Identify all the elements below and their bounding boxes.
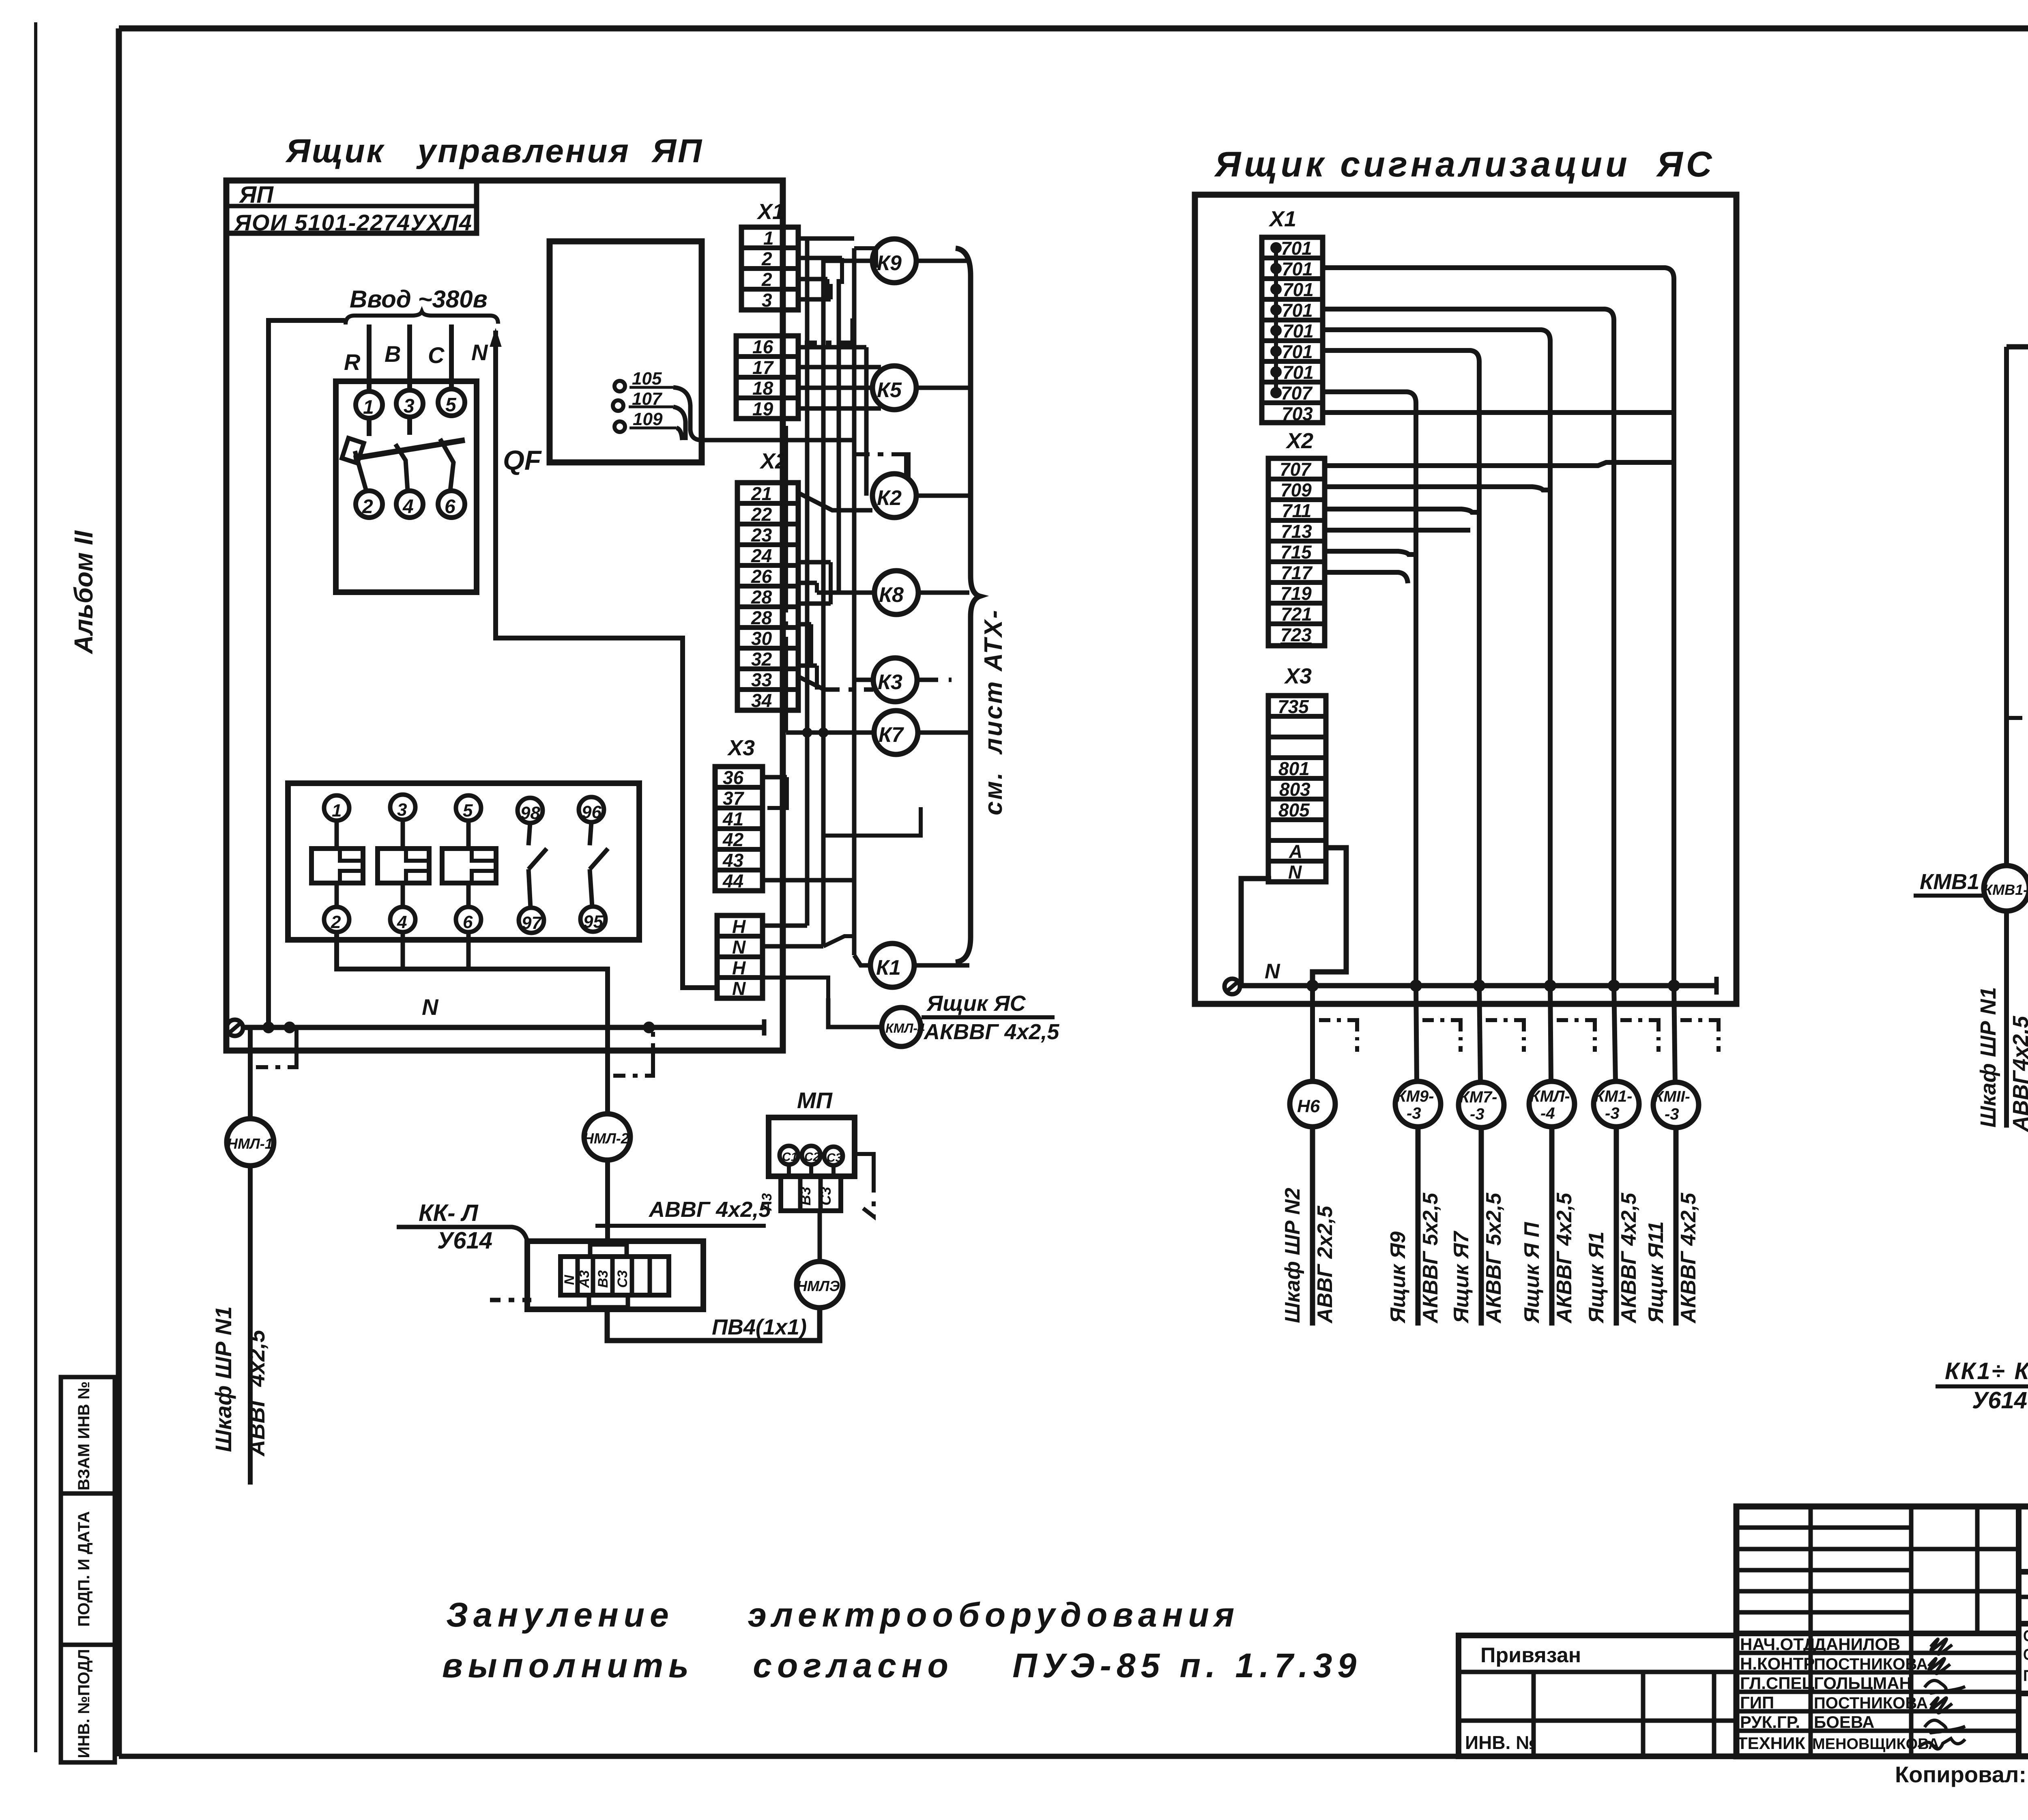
svg-text:Ящик сигнализации ЯС: Ящик сигнализации ЯС (1214, 144, 1715, 184)
svg-text:АВВГ4х2,5: АВВГ4х2,5 (2009, 1016, 2028, 1132)
svg-text:Ящик управления ЯП: Ящик управления ЯП (285, 133, 703, 170)
svg-text:АКВВГ 4х2,5: АКВВГ 4х2,5 (923, 1020, 1059, 1044)
svg-text:ГОЛЬЦМАН: ГОЛЬЦМАН (1814, 1674, 1912, 1693)
svg-text:5: 5 (463, 801, 473, 821)
svg-text:Шкаф ШР N1: Шкаф ШР N1 (1976, 987, 2000, 1128)
svg-text:КМВ1: КМВ1 (1920, 870, 1979, 894)
svg-text:3: 3 (404, 395, 415, 417)
svg-text:17: 17 (752, 357, 774, 378)
svg-text:44: 44 (722, 870, 743, 892)
svg-text:43: 43 (722, 850, 744, 871)
svg-text:А3: А3 (577, 1270, 592, 1288)
svg-text:В3: В3 (595, 1270, 611, 1288)
svg-text:Альбом II: Альбом II (69, 530, 98, 655)
svg-text:105: 105 (632, 369, 662, 389)
svg-text:22: 22 (751, 504, 772, 525)
svg-text:В3: В3 (797, 1187, 814, 1205)
svg-text:К8: К8 (879, 583, 904, 607)
svg-text:98: 98 (520, 803, 540, 823)
svg-text:К5: К5 (877, 378, 902, 402)
svg-text:РУК.ГР.: РУК.ГР. (1740, 1713, 1800, 1732)
svg-text:Привязан: Привязан (1480, 1644, 1581, 1667)
svg-text:2: 2 (362, 496, 373, 518)
svg-text:ПОСТНИКОВА: ПОСТНИКОВА (1814, 1655, 1928, 1673)
svg-text:С1: С1 (782, 1150, 797, 1164)
svg-text:С2: С2 (804, 1150, 820, 1164)
svg-text:БОЕВА: БОЕВА (1814, 1713, 1874, 1732)
svg-text:N: N (471, 340, 488, 365)
svg-text:Ящик Я1: Ящик Я1 (1585, 1231, 1608, 1324)
svg-text:X2: X2 (759, 449, 787, 473)
svg-text:30: 30 (751, 628, 772, 649)
svg-text:707: 707 (1280, 459, 1312, 480)
svg-text:701: 701 (1282, 341, 1313, 362)
svg-text:97: 97 (522, 913, 542, 933)
svg-text:2: 2 (761, 269, 772, 290)
svg-text:707: 707 (1281, 382, 1313, 404)
svg-text:НМЛЭ: НМЛЭ (797, 1278, 840, 1294)
svg-text:ПВ4(1х1): ПВ4(1х1) (712, 1315, 807, 1339)
svg-text:713: 713 (1281, 521, 1312, 542)
svg-text:МП: МП (797, 1087, 833, 1113)
svg-text:41: 41 (722, 808, 743, 829)
svg-text:701: 701 (1283, 279, 1314, 300)
svg-text:703: 703 (1282, 403, 1313, 424)
svg-text:ГИП: ГИП (1740, 1693, 1774, 1712)
svg-text:28: 28 (751, 607, 772, 628)
svg-text:Ящик Я11: Ящик Я11 (1644, 1221, 1668, 1324)
svg-text:ПОДП. И ДАТА: ПОДП. И ДАТА (75, 1511, 93, 1627)
svg-text:QF: QF (503, 445, 542, 476)
svg-text:КМ1-: КМ1- (1594, 1087, 1632, 1105)
svg-text:А: А (1289, 841, 1302, 862)
svg-text:X1: X1 (1268, 207, 1296, 231)
svg-text:ВЗАМ ИНВ №: ВЗАМ ИНВ № (75, 1382, 93, 1491)
svg-text:711: 711 (1282, 500, 1311, 521)
svg-text:см. лист АТХ-: см. лист АТХ- (980, 608, 1008, 815)
svg-text:С3: С3 (817, 1187, 834, 1205)
svg-text:709: 709 (1280, 479, 1312, 501)
svg-text:К9: К9 (877, 251, 902, 275)
svg-text:НАЧ.ОТД: НАЧ.ОТД (1740, 1635, 1815, 1654)
svg-text:701: 701 (1281, 238, 1312, 259)
svg-text:36: 36 (723, 767, 744, 788)
svg-text:К7: К7 (879, 723, 904, 747)
svg-text:-3: -3 (1470, 1105, 1484, 1123)
svg-text:B: B (385, 341, 401, 367)
svg-text:109: 109 (633, 409, 663, 429)
svg-text:-4: -4 (1540, 1104, 1555, 1122)
svg-text:НМЛ-1: НМЛ-1 (227, 1135, 273, 1152)
svg-text:Н: Н (732, 957, 746, 978)
svg-text:СТАНЦИЯ БИОЛОГИЧЕСКОЙ ОЧИСТКИ: СТАНЦИЯ БИОЛОГИЧЕСКОЙ ОЧИСТКИ (2023, 1627, 2028, 1645)
svg-text:X2: X2 (1285, 429, 1313, 453)
svg-text:C: C (428, 342, 445, 368)
svg-text:Н6: Н6 (1297, 1096, 1320, 1116)
svg-text:Ящик Я П: Ящик Я П (1520, 1222, 1544, 1324)
svg-text:КМ9-: КМ9- (1396, 1087, 1434, 1105)
svg-text:АВВГ 4х2,5: АВВГ 4х2,5 (648, 1197, 771, 1222)
svg-text:715: 715 (1280, 541, 1312, 563)
svg-text:719: 719 (1280, 583, 1312, 604)
svg-text:N: N (562, 1274, 577, 1285)
svg-text:АВВГ 2х2,5: АВВГ 2х2,5 (1313, 1205, 1337, 1324)
svg-text:Шкаф ШР N2: Шкаф ШР N2 (1281, 1188, 1304, 1323)
svg-text:3: 3 (762, 290, 772, 311)
svg-text:N: N (732, 937, 746, 958)
svg-text:ГЛ.СПЕЦ: ГЛ.СПЕЦ (1740, 1674, 1814, 1693)
svg-text:1: 1 (332, 801, 342, 821)
svg-text:735: 735 (1278, 696, 1309, 717)
svg-text:К3: К3 (878, 670, 902, 694)
svg-text:N: N (1265, 960, 1280, 983)
svg-text:-3: -3 (1605, 1104, 1620, 1122)
svg-text:23: 23 (751, 524, 772, 546)
svg-text:96: 96 (582, 802, 602, 822)
svg-text:X1: X1 (756, 200, 784, 224)
svg-text:АКВВГ 4х2,5: АКВВГ 4х2,5 (1677, 1193, 1700, 1324)
svg-text:Н.КОНТР: Н.КОНТР (1740, 1654, 1815, 1673)
svg-text:21: 21 (751, 483, 772, 504)
svg-text:Н: Н (732, 916, 746, 937)
svg-text:КМЛ-: КМЛ- (1530, 1087, 1570, 1105)
svg-text:А3: А3 (759, 1193, 775, 1211)
svg-text:28: 28 (751, 587, 772, 608)
svg-text:У614: У614 (1972, 1387, 2027, 1414)
svg-text:КМ7-: КМ7- (1459, 1088, 1497, 1106)
svg-text:ПРОИЗВОДИТЕЛЬНОСТЬЮ 100м³/сут.: ПРОИЗВОДИТЕЛЬНОСТЬЮ 100м³/сут. (2023, 1667, 2028, 1685)
svg-text:ИНВ. №: ИНВ. № (1465, 1732, 1536, 1753)
svg-text:ЯП: ЯП (238, 182, 274, 208)
svg-text:701: 701 (1282, 300, 1313, 321)
svg-text:33: 33 (751, 669, 772, 690)
svg-text:ПОСТНИКОВА: ПОСТНИКОВА (1814, 1694, 1928, 1712)
svg-text:-3: -3 (1665, 1105, 1679, 1123)
svg-text:6: 6 (463, 912, 473, 932)
svg-text:ИНВ. №ПОДЛ: ИНВ. №ПОДЛ (75, 1649, 93, 1758)
svg-text:Ящик Я9: Ящик Я9 (1386, 1231, 1410, 1324)
svg-text:701: 701 (1283, 362, 1314, 383)
svg-text:ТЕХНИК: ТЕХНИК (1737, 1734, 1805, 1753)
svg-text:НМЛ-2: НМЛ-2 (583, 1130, 629, 1147)
svg-text:N: N (422, 994, 439, 1020)
svg-text:Шкаф ШР N1: Шкаф ШР N1 (211, 1306, 236, 1452)
svg-text:Зануление электрооборудова: Зануление электрооборудования (446, 1596, 1240, 1634)
svg-text:3: 3 (397, 800, 407, 820)
svg-text:16: 16 (752, 336, 773, 357)
svg-text:Копировал:: Копировал: (1895, 1762, 2026, 1787)
svg-text:АКВВГ 5х2,5: АКВВГ 5х2,5 (1419, 1193, 1442, 1324)
svg-text:1: 1 (763, 228, 774, 249)
svg-text:выполнить согласно ПУЭ-8: выполнить согласно ПУЭ-85 п. 1.7.39 (442, 1646, 1362, 1685)
svg-text:АКВВГ 5х2,5: АКВВГ 5х2,5 (1482, 1193, 1506, 1324)
svg-text:КМII-: КМII- (1654, 1088, 1690, 1105)
svg-text:АКВВГ 4х2,5: АКВВГ 4х2,5 (1553, 1193, 1576, 1324)
svg-text:721: 721 (1281, 604, 1312, 625)
svg-text:СТОЧНЫХ ВОД С БИОФИЛЬТРАМИ: СТОЧНЫХ ВОД С БИОФИЛЬТРАМИ (2023, 1646, 2028, 1663)
svg-text:X3: X3 (727, 736, 755, 760)
svg-text:У614: У614 (437, 1227, 492, 1254)
svg-text:24: 24 (751, 545, 772, 566)
svg-text:1: 1 (363, 397, 374, 418)
svg-text:701: 701 (1283, 320, 1314, 342)
svg-text:32: 32 (751, 649, 772, 670)
svg-text:19: 19 (752, 398, 773, 419)
svg-text:2: 2 (331, 912, 341, 932)
svg-text:ДАНИЛОВ: ДАНИЛОВ (1814, 1635, 1900, 1654)
svg-text:805: 805 (1278, 799, 1310, 821)
svg-text:26: 26 (751, 566, 772, 587)
svg-text:К2: К2 (877, 486, 902, 510)
svg-text:801: 801 (1278, 758, 1310, 779)
svg-text:37: 37 (723, 788, 745, 809)
svg-text:КК1÷ ККЗ: КК1÷ ККЗ (1945, 1358, 2028, 1384)
svg-text:N: N (732, 978, 746, 999)
svg-text:701: 701 (1282, 258, 1313, 279)
svg-text:Ящик Я7: Ящик Я7 (1450, 1231, 1473, 1324)
svg-text:18: 18 (752, 378, 773, 399)
svg-text:2: 2 (761, 248, 772, 269)
svg-text:КМВ1-1: КМВ1-1 (1983, 881, 2028, 898)
svg-text:803: 803 (1279, 779, 1310, 800)
svg-text:Ящик ЯС: Ящик ЯС (926, 991, 1026, 1016)
svg-text:К1: К1 (876, 956, 901, 980)
svg-text:С3: С3 (827, 1151, 842, 1165)
svg-text:-3: -3 (1407, 1104, 1421, 1122)
svg-text:КК- Л: КК- Л (419, 1200, 479, 1226)
svg-text:5: 5 (445, 394, 457, 416)
svg-text:С3: С3 (615, 1270, 630, 1288)
svg-text:717: 717 (1281, 562, 1313, 583)
svg-text:95: 95 (583, 912, 603, 932)
svg-text:4: 4 (402, 496, 414, 518)
svg-text:X3: X3 (1284, 664, 1312, 688)
svg-text:R: R (344, 349, 361, 375)
svg-text:42: 42 (722, 829, 744, 850)
svg-text:34: 34 (751, 690, 772, 711)
svg-text:6: 6 (445, 496, 455, 518)
svg-text:АКВВГ 4х2,5: АКВВГ 4х2,5 (1617, 1193, 1641, 1324)
svg-text:ЯОИ 5101-2274УХЛ4: ЯОИ 5101-2274УХЛ4 (234, 210, 473, 235)
svg-text:723: 723 (1280, 624, 1312, 645)
svg-text:N: N (1288, 862, 1302, 883)
svg-text:КМЛ-4: КМЛ-4 (885, 1021, 925, 1036)
svg-text:Ввод ~380в: Ввод ~380в (350, 286, 488, 313)
svg-text:АВВГ 4х2,5: АВВГ 4х2,5 (244, 1330, 269, 1457)
svg-text:4: 4 (397, 912, 407, 932)
